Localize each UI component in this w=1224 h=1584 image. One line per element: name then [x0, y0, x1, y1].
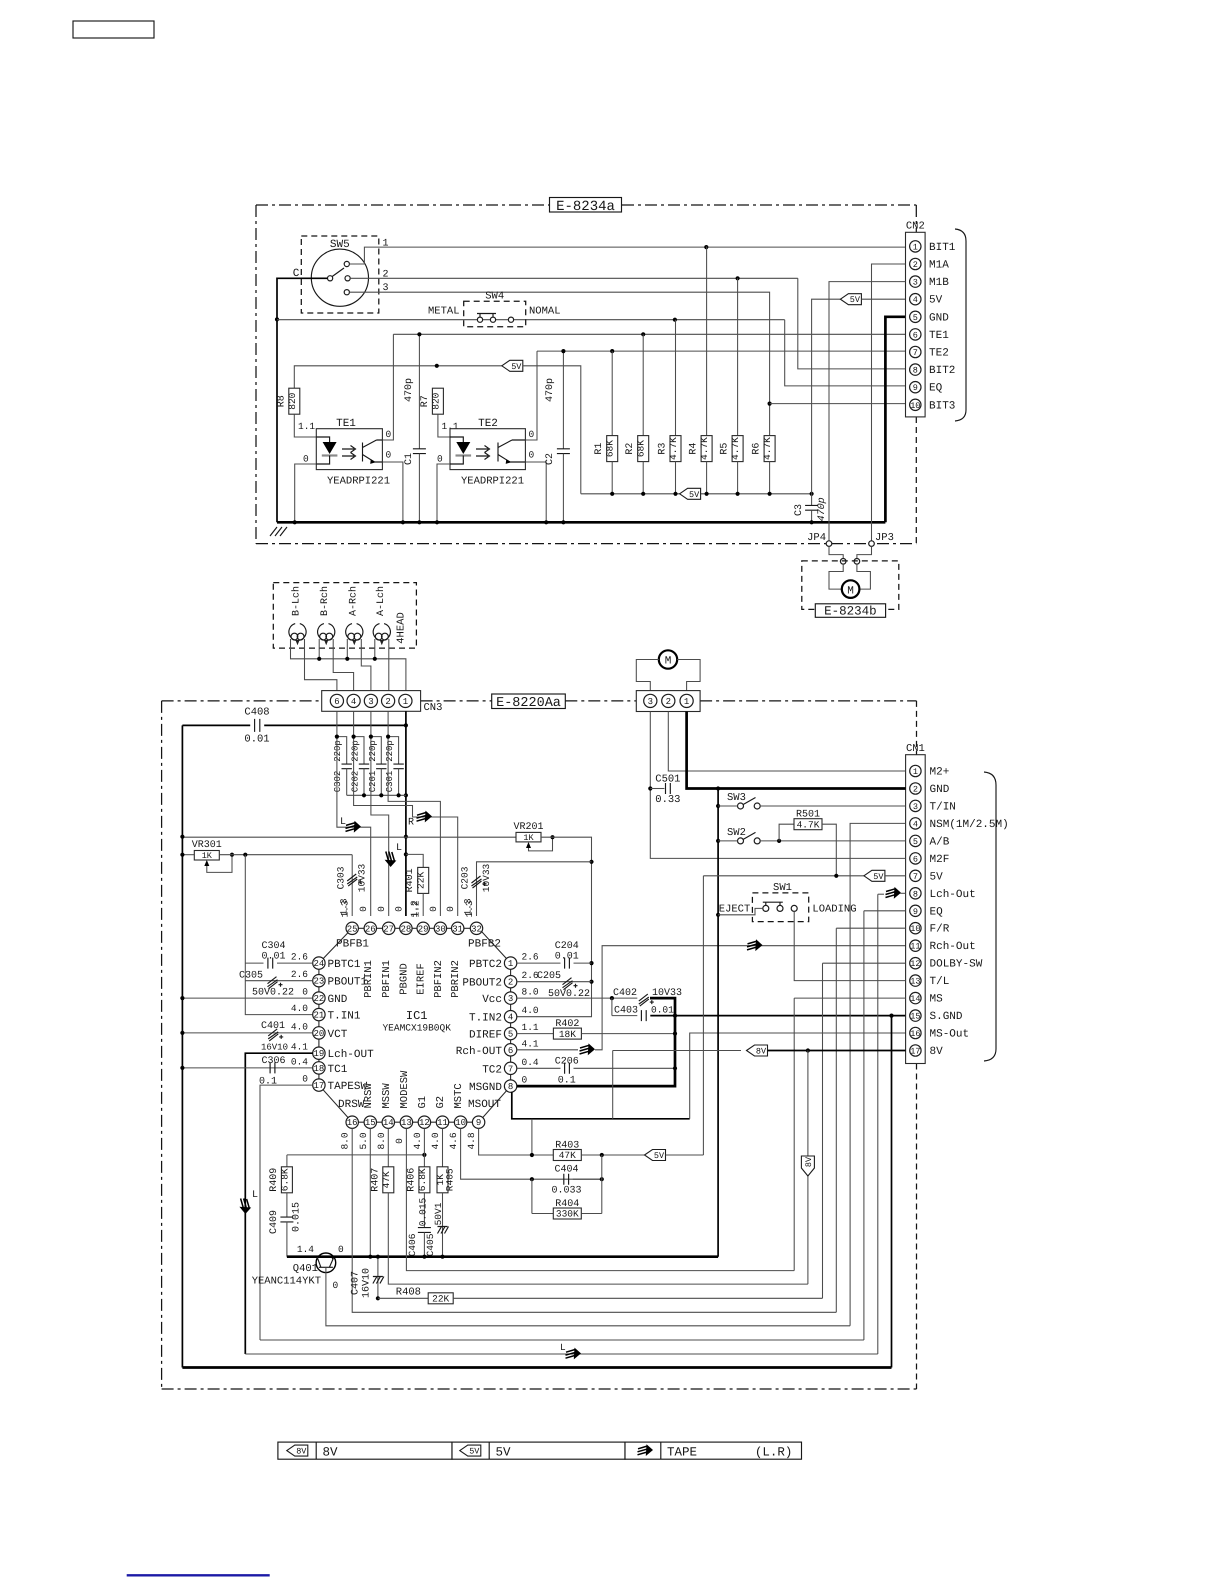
wire head common to left bus (C408 line) [182, 724, 250, 726]
tape arrow (Lch-Out CN1 pin 8) [886, 887, 902, 899]
svg-text:0: 0 [338, 1244, 344, 1255]
wire 5V flag to 5V rail [523, 366, 581, 494]
svg-text:11: 11 [910, 942, 920, 952]
wire VR201 wiper [529, 837, 553, 851]
wire 5V line to CN1 pin7 [703, 875, 864, 877]
svg-text:26: 26 [365, 924, 376, 934]
wire head common bus to CN3 pin 1 [291, 639, 406, 691]
capacitor C201 220p [371, 737, 381, 765]
CN1 pin 11 Rch-Out [910, 940, 921, 951]
svg-text:MSGND: MSGND [469, 1082, 502, 1094]
svg-text:MSSW: MSSW [381, 1083, 393, 1109]
IC1 pin 27 [383, 922, 395, 934]
connector motor CN [636, 691, 700, 712]
power flag 5V (top block) [502, 360, 523, 371]
CN1 pin 3 T/IN [910, 800, 921, 811]
wire M1A CN2 pin2 to JP3 [872, 264, 906, 544]
svg-text:0.01: 0.01 [244, 734, 269, 746]
resistor R406 6.8K (pin12 G1) [423, 1128, 425, 1166]
wire TE1 output top to TE1 net [382, 334, 393, 440]
svg-text:EIREF: EIREF [416, 963, 428, 995]
svg-text:820: 820 [430, 392, 441, 409]
junction caps common [404, 793, 408, 797]
svg-text:2: 2 [913, 785, 918, 795]
svg-text:50V0.22: 50V0.22 [252, 988, 294, 999]
svg-text:5V: 5V [511, 362, 522, 372]
motor connector pin 1 [680, 694, 693, 707]
svg-text:C306: C306 [261, 1056, 285, 1067]
junction C407 top [376, 1255, 380, 1259]
svg-text:5.0: 5.0 [358, 1132, 369, 1149]
svg-text:TAPESW: TAPESW [328, 1081, 368, 1093]
svg-text:R1: R1 [594, 443, 605, 455]
svg-text:TAPE: TAPE [667, 1445, 697, 1459]
svg-text:C204: C204 [555, 941, 579, 952]
junction R402 right on riser [673, 1032, 677, 1036]
opto-coupler TE1 YEADRPI221 [316, 429, 382, 470]
svg-text:T/L: T/L [930, 976, 950, 988]
svg-text:0: 0 [529, 450, 535, 461]
svg-text:C301: C301 [385, 771, 395, 793]
svg-text:0: 0 [394, 1138, 405, 1144]
IC1 pin 26 [364, 922, 376, 934]
svg-text:0: 0 [393, 906, 404, 912]
wire motor lead left [829, 564, 843, 589]
wire SW5 contact 3 to R6 [349, 292, 769, 435]
svg-text:3: 3 [913, 278, 918, 288]
svg-text:4.1: 4.1 [522, 1038, 539, 1049]
wire SW3 to CN1 pin3 T/IN [760, 805, 905, 807]
svg-text:TE2: TE2 [929, 348, 949, 360]
wire riser S.GND thick [891, 1016, 893, 1368]
svg-text:470p: 470p [545, 378, 556, 402]
svg-text:0: 0 [303, 454, 309, 465]
capacitor C306 0.1 (pin18 TC1) [182, 1067, 312, 1069]
junction R403/R404 node [600, 1153, 604, 1157]
capacitor C304 0.01 (pin24) [245, 962, 263, 964]
svg-text:E-8220Aa: E-8220Aa [496, 696, 561, 711]
wire MS to CN1 pin14 [794, 997, 905, 999]
wire CN3 pin1 common down to IC pin 28 (PBGND) [405, 711, 407, 916]
svg-text:5: 5 [913, 837, 918, 847]
svg-text:7: 7 [913, 872, 918, 882]
motor M (capstan) [659, 650, 677, 668]
IC1 pin 12 [418, 1116, 430, 1128]
junction C1 top [417, 332, 421, 336]
junction R5 bottom [736, 492, 740, 496]
junction R501 bottom on 5V [834, 874, 838, 878]
svg-text:METAL: METAL [428, 306, 460, 318]
junction TE2 cathode [435, 520, 439, 524]
svg-text:6: 6 [913, 854, 918, 864]
svg-text:17: 17 [313, 1081, 324, 1091]
svg-text:CN2: CN2 [906, 221, 925, 233]
label E-8220Aa [492, 694, 566, 709]
svg-text:4.0: 4.0 [412, 1132, 423, 1149]
IC1 pin 19 [313, 1047, 325, 1059]
svg-text:SW3: SW3 [727, 792, 746, 804]
svg-text:4.0: 4.0 [291, 1003, 308, 1014]
svg-text:8: 8 [913, 889, 918, 899]
wire BIT3 to CN2 pin 10 [770, 403, 906, 405]
svg-text:10: 10 [455, 1118, 466, 1128]
wire flag to CN2 pin 4 [861, 298, 905, 300]
wire emitter rail (thick) [287, 1255, 718, 1258]
CN1 pin 12 DOLBY-SW [910, 958, 921, 969]
svg-text:0.1: 0.1 [558, 1076, 576, 1087]
svg-text:0: 0 [358, 906, 369, 912]
legend cell TAPE [625, 1442, 802, 1459]
junction 8V riser [806, 1048, 810, 1052]
svg-text:220p: 220p [385, 740, 395, 762]
svg-text:6: 6 [913, 330, 918, 340]
svg-text:4.0: 4.0 [522, 1005, 539, 1016]
IC1 pin 3 [504, 992, 516, 1004]
svg-text:2.6: 2.6 [522, 952, 539, 963]
svg-text:8.0: 8.0 [376, 1132, 387, 1149]
wire net TE1 to CN2 pin 6 [393, 333, 905, 335]
svg-text:5V: 5V [930, 871, 944, 883]
resistor R4 4.7K [706, 247, 708, 436]
svg-text:8: 8 [913, 366, 918, 376]
svg-text:C3: C3 [794, 504, 805, 516]
motor board connector pins [840, 559, 846, 565]
svg-text:15: 15 [910, 1012, 920, 1022]
svg-text:L: L [252, 1190, 258, 1201]
svg-text:0.01: 0.01 [261, 952, 285, 963]
wire MSOUT branch riser [531, 1119, 533, 1155]
svg-text:R4: R4 [689, 443, 700, 455]
junction R403 left [530, 1153, 534, 1157]
svg-text:28: 28 [400, 924, 411, 934]
CN3 pin 6 [330, 694, 343, 707]
IC1 pin 22 [313, 992, 325, 1004]
svg-text:21: 21 [313, 1011, 324, 1021]
IC1 pin 32 [470, 922, 482, 934]
svg-text:0.01: 0.01 [555, 952, 579, 963]
svg-text:A-Rch: A-Rch [347, 586, 359, 616]
svg-text:C303: C303 [336, 866, 347, 889]
wire CN3 pin6 (B-Lch) to IC pin 26 via L arrow [337, 711, 371, 916]
svg-text:5V: 5V [469, 1447, 480, 1457]
svg-text:9: 9 [913, 383, 918, 393]
junction S.GND riser [889, 1014, 893, 1018]
svg-text:18K: 18K [559, 1029, 576, 1040]
junction C403 right on riser [673, 1014, 677, 1018]
svg-text:C304: C304 [261, 941, 285, 952]
CN1 pin 1 M2+ [910, 765, 921, 776]
svg-text:10: 10 [910, 924, 920, 934]
capacitor C302 220p [337, 737, 347, 765]
svg-text:4: 4 [913, 295, 918, 305]
IC1 pin 7 [504, 1062, 516, 1074]
svg-text:M: M [847, 585, 854, 597]
IC1 pin 25 [346, 922, 358, 934]
junction C3 top on 5V rail [810, 492, 814, 496]
capacitor C206 0.1 (pin7 TC2) [517, 1067, 561, 1069]
wire SW1 loading contact to CN1 pin13 T/L [794, 911, 905, 980]
wire B-Rch common lead [318, 639, 320, 659]
wire C402/C403 left link [611, 998, 613, 1016]
wire rail TAPESW [260, 1339, 864, 1341]
wire CN3 pin2 (A-Lch) to IC pin 30 [388, 711, 440, 916]
svg-text:TC1: TC1 [328, 1064, 348, 1076]
svg-text:1.4: 1.4 [297, 1244, 314, 1255]
svg-text:PBOUT1: PBOUT1 [328, 977, 368, 989]
svg-text:PBFB2: PBFB2 [468, 939, 501, 951]
svg-text:9: 9 [476, 1118, 481, 1128]
wire 8V line to CN1 pin17 [613, 1050, 741, 1052]
svg-text:C203: C203 [460, 866, 471, 889]
capacitor C301 220p [388, 737, 399, 765]
svg-text:13: 13 [401, 1118, 412, 1128]
jumper JP3 [869, 541, 875, 547]
svg-text:4.7K: 4.7K [730, 437, 741, 460]
svg-text:TE1: TE1 [929, 330, 949, 342]
IC1 pin 10 [454, 1116, 466, 1128]
svg-text:PBFIN2: PBFIN2 [433, 960, 445, 998]
svg-text:1: 1 [913, 767, 918, 777]
wire TE2 output bottom to ground rail [525, 462, 546, 522]
svg-text:L: L [396, 843, 402, 854]
trimmer VR301 1K [194, 851, 219, 861]
CN1 pin 7 5V [910, 870, 921, 881]
CN2 pin 4 5V [910, 294, 921, 305]
capacitor C501 0.33 [666, 783, 671, 794]
CN1 pin 9 EQ [910, 905, 921, 916]
ground symbol [270, 527, 287, 536]
wire motor to connector pin 1 [677, 660, 700, 691]
wire IC pin16 DRSW down [352, 1128, 836, 1312]
svg-text:(L.R): (L.R) [755, 1445, 793, 1459]
svg-text:68K: 68K [605, 440, 616, 457]
wire SW5 contact 1 to CN2 pin 1 (BIT1) [349, 247, 905, 264]
junction SW3 on GND bus [716, 804, 720, 808]
wire left vertical bus [181, 725, 183, 1367]
svg-text:16: 16 [910, 1029, 920, 1039]
IC1 pin 4 [504, 1011, 516, 1023]
wire VR201 output to C204 vertical [517, 837, 592, 1017]
svg-text:0.015: 0.015 [418, 1197, 429, 1226]
svg-text:R401: R401 [405, 868, 416, 892]
junction R7 top [435, 364, 439, 368]
block 4HEAD dashed border [273, 583, 416, 649]
svg-text:17: 17 [910, 1047, 920, 1057]
svg-text:2: 2 [666, 697, 671, 707]
svg-text:PBTC1: PBTC1 [328, 959, 361, 971]
svg-text:0: 0 [333, 1280, 339, 1291]
junction C301 bottom [397, 793, 401, 797]
wire VR301 branch down (C304/C305/T.IN1) [245, 855, 312, 1015]
junction CN3 pin4 branch [352, 735, 356, 739]
capacitor C409 0.015 [286, 1193, 288, 1217]
CN2 pin 5 GND [910, 311, 921, 322]
CN1 pin 14 MS [910, 992, 921, 1003]
capacitor C303 10V33 (pin25) [351, 855, 353, 916]
junction C501 left [648, 786, 652, 790]
legend cell 8V [278, 1442, 452, 1459]
svg-text:R2: R2 [625, 443, 636, 455]
IC1 pin 28 [400, 922, 412, 934]
svg-text:Lch-OUT: Lch-OUT [328, 1049, 375, 1061]
junction R3 bottom [673, 492, 677, 496]
svg-text:5: 5 [913, 313, 918, 323]
revision box (top-left) [73, 21, 154, 38]
svg-text:330K: 330K [556, 1209, 579, 1220]
CN1 pin 5 A/B [910, 835, 921, 846]
svg-text:T/IN: T/IN [930, 801, 956, 813]
wire VR301 wiper [207, 855, 232, 873]
svg-text:0: 0 [386, 450, 392, 461]
svg-text:22K: 22K [416, 872, 427, 889]
CN1 pin 15 S.GND [910, 1010, 921, 1021]
svg-text:PBRIN2: PBRIN2 [450, 960, 462, 998]
junction R401 tap [404, 852, 408, 856]
CN1 pin 16 MS-Out [910, 1027, 921, 1038]
svg-text:5V: 5V [873, 872, 884, 882]
svg-text:C201: C201 [368, 771, 378, 793]
resistor R401 22K (pin29 EIREF) [406, 854, 423, 867]
wire TE1 cathode to ground rail [295, 464, 317, 522]
svg-text:F/R: F/R [930, 924, 950, 936]
svg-text:32: 32 [471, 924, 482, 934]
svg-text:YEANC114YKT: YEANC114YKT [252, 1276, 321, 1288]
IC1 pin 13 [400, 1116, 412, 1128]
svg-text:3: 3 [508, 994, 513, 1004]
svg-text:5V: 5V [850, 295, 861, 305]
junction GND bus branch [716, 786, 720, 790]
svg-text:R403: R403 [555, 1141, 579, 1152]
svg-text:470p: 470p [404, 378, 415, 402]
svg-text:1.1: 1.1 [522, 1022, 539, 1033]
resistor R1 68K [611, 351, 613, 436]
svg-text:L: L [560, 1342, 566, 1353]
junction VR301 line on bus [180, 853, 184, 857]
svg-text:C403: C403 [614, 1006, 638, 1017]
CN2 pin 2 M1A [910, 258, 921, 269]
svg-text:R: R [408, 818, 414, 829]
wire motor pin2 to CN1 pin1 M2+ [668, 712, 905, 772]
svg-text:5V: 5V [929, 295, 943, 307]
CN1 pin 13 T/L [910, 975, 921, 986]
svg-text:19: 19 [313, 1049, 324, 1059]
wire EQ to CN1 pin9 [864, 910, 906, 912]
junction R4 bottom [705, 492, 709, 496]
junction A-Lch common [373, 657, 377, 661]
wire GND bus to SW3 [718, 805, 737, 807]
svg-text:2: 2 [385, 697, 390, 707]
wire NSM riser (CN1 pin4) [850, 823, 906, 1325]
wire riser DOLBY-SW [822, 963, 824, 1298]
capacitor C203 10V33 (pin32) [477, 862, 592, 916]
junction R6 bottom [768, 492, 772, 496]
svg-text:DRSW: DRSW [338, 1099, 365, 1111]
transistor Q401 YEANC114YKT [316, 1253, 336, 1273]
wire TE1 output bottom to ground rail [382, 462, 403, 522]
CN1 pin 8 Lch-Out [910, 888, 921, 899]
capacitor C1 470p [418, 334, 420, 449]
svg-text:R501: R501 [796, 810, 820, 821]
IC1 pin 24 [313, 957, 325, 969]
wire ground rail (top block) [277, 521, 885, 524]
resistor R2 68K [642, 334, 644, 435]
head B-Rch [318, 624, 335, 641]
svg-text:4.0: 4.0 [430, 1132, 441, 1149]
svg-text:4.8: 4.8 [466, 1132, 477, 1149]
svg-text:5V: 5V [654, 1151, 665, 1161]
junction C404 right [600, 1177, 604, 1181]
wire Lch-OUT pin19 down [245, 1053, 312, 1354]
svg-text:0: 0 [529, 429, 535, 440]
capacitor C205 50V0.22 (pin2 PBOUT2) [517, 981, 592, 983]
wire GND bus to SW1 [718, 908, 763, 914]
junction CN3 pin1 / C408 line [404, 723, 408, 727]
wire JP3 to motor connector pin [857, 546, 872, 558]
wire motor lead right [857, 564, 871, 589]
resistor R7 820 [432, 388, 443, 414]
junction BIT3 branch on R6 wire [768, 402, 772, 406]
wire R403 right to 5V flag [581, 1154, 644, 1156]
svg-text:L: L [340, 817, 346, 828]
CN1 pin 4 NSM(1M/2.5M) [910, 818, 921, 829]
svg-text:8.0: 8.0 [340, 1132, 351, 1149]
svg-text:6.8K: 6.8K [279, 1168, 290, 1191]
svg-text:4.7K: 4.7K [668, 437, 679, 460]
svg-text:PBGND: PBGND [398, 963, 410, 995]
svg-text:C404: C404 [554, 1165, 578, 1176]
svg-text:16: 16 [347, 1118, 358, 1128]
motor connector pin 3 [644, 694, 657, 707]
svg-text:C407: C407 [351, 1271, 362, 1295]
svg-text:JP3: JP3 [875, 532, 894, 544]
wire SW2 to CN1 pin5 A/B [760, 840, 905, 842]
svg-text:R3: R3 [658, 443, 669, 455]
svg-text:M: M [665, 656, 672, 668]
svg-text:29: 29 [418, 924, 429, 934]
svg-text:0: 0 [376, 906, 387, 912]
junction CN3 pin3 branch [369, 735, 373, 739]
svg-text:1: 1 [684, 697, 689, 707]
svg-text:1.3: 1.3 [340, 900, 351, 917]
resistor R404 330K [553, 1208, 581, 1219]
resistor R403 47K [553, 1150, 581, 1161]
svg-text:R404: R404 [555, 1199, 579, 1210]
svg-text:NOMAL: NOMAL [529, 306, 561, 318]
svg-text:Q401: Q401 [293, 1263, 318, 1275]
CN2 pin 10 BIT3 [910, 399, 921, 410]
junction C404 left [530, 1177, 534, 1181]
wire CN3 pin4 (B-Rch) to IC pin 31 via R arrow [354, 711, 458, 916]
svg-text:0: 0 [437, 454, 443, 465]
svg-text:3: 3 [913, 802, 918, 812]
wire GND bus to SW2 [718, 840, 737, 842]
svg-text:23: 23 [313, 977, 324, 987]
junction C205 line [589, 980, 593, 984]
svg-text:20: 20 [313, 1029, 324, 1039]
svg-text:10: 10 [910, 401, 920, 411]
wire VR bus line (to VR201) [182, 836, 516, 838]
svg-text:PBTC2: PBTC2 [469, 959, 502, 971]
tape arrow (Rch-OUT) [580, 1043, 596, 1055]
svg-text:13: 13 [910, 977, 920, 987]
svg-text:2: 2 [383, 270, 389, 281]
svg-text:4.6: 4.6 [448, 1132, 459, 1149]
wire IC pin10 MSTC down [461, 1128, 602, 1179]
junction VR bus crossing [404, 835, 408, 839]
svg-text:8V: 8V [323, 1445, 339, 1459]
svg-text:12: 12 [419, 1118, 430, 1128]
junction C203 line [589, 860, 593, 864]
